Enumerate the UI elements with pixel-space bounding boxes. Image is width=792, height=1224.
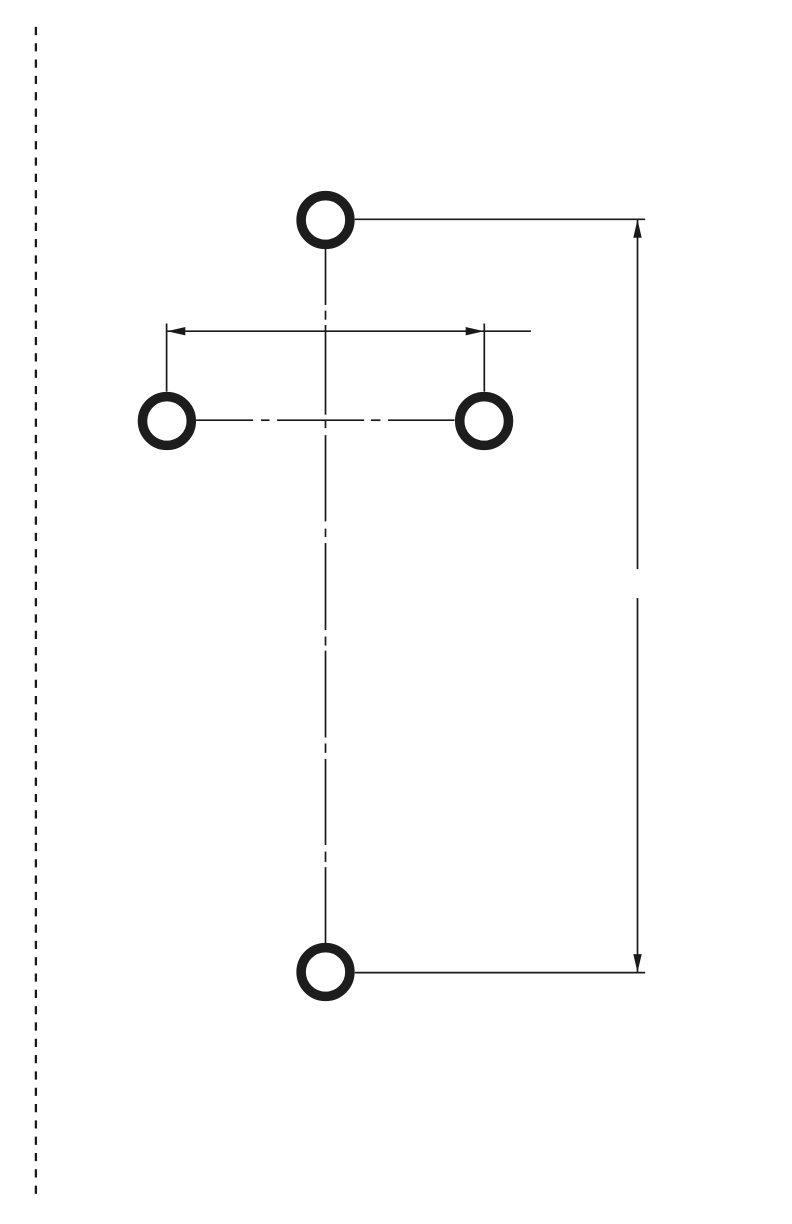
arrowhead bottom (points down) — [633, 954, 641, 972]
extension line top (from H1 right) — [355, 218, 645, 220]
horizontal dimension line — [167, 330, 531, 332]
hole H1 (top) — [301, 196, 350, 245]
arrowhead right (points right) — [466, 327, 484, 335]
hole H3 (middle right) — [460, 397, 509, 446]
vertical center line (through H1 and H4) — [325, 249, 327, 943]
arrowhead top (points up) — [633, 220, 641, 238]
extension line right (from H3 up) — [483, 324, 485, 392]
hole H4 (bottom) — [301, 948, 350, 997]
vertical dimension line lower segment — [637, 598, 639, 972]
arrowhead left (points left) — [167, 327, 185, 335]
vertical dimension line upper segment — [637, 220, 639, 570]
hole H2 (middle left) — [143, 397, 192, 446]
extension line bottom (from H4 right) — [355, 972, 645, 974]
horizontal center line (through H2 and H3) — [196, 419, 454, 421]
extension line left (from H2 up) — [166, 324, 168, 392]
fold/break dashed line (left edge) — [35, 27, 37, 1194]
